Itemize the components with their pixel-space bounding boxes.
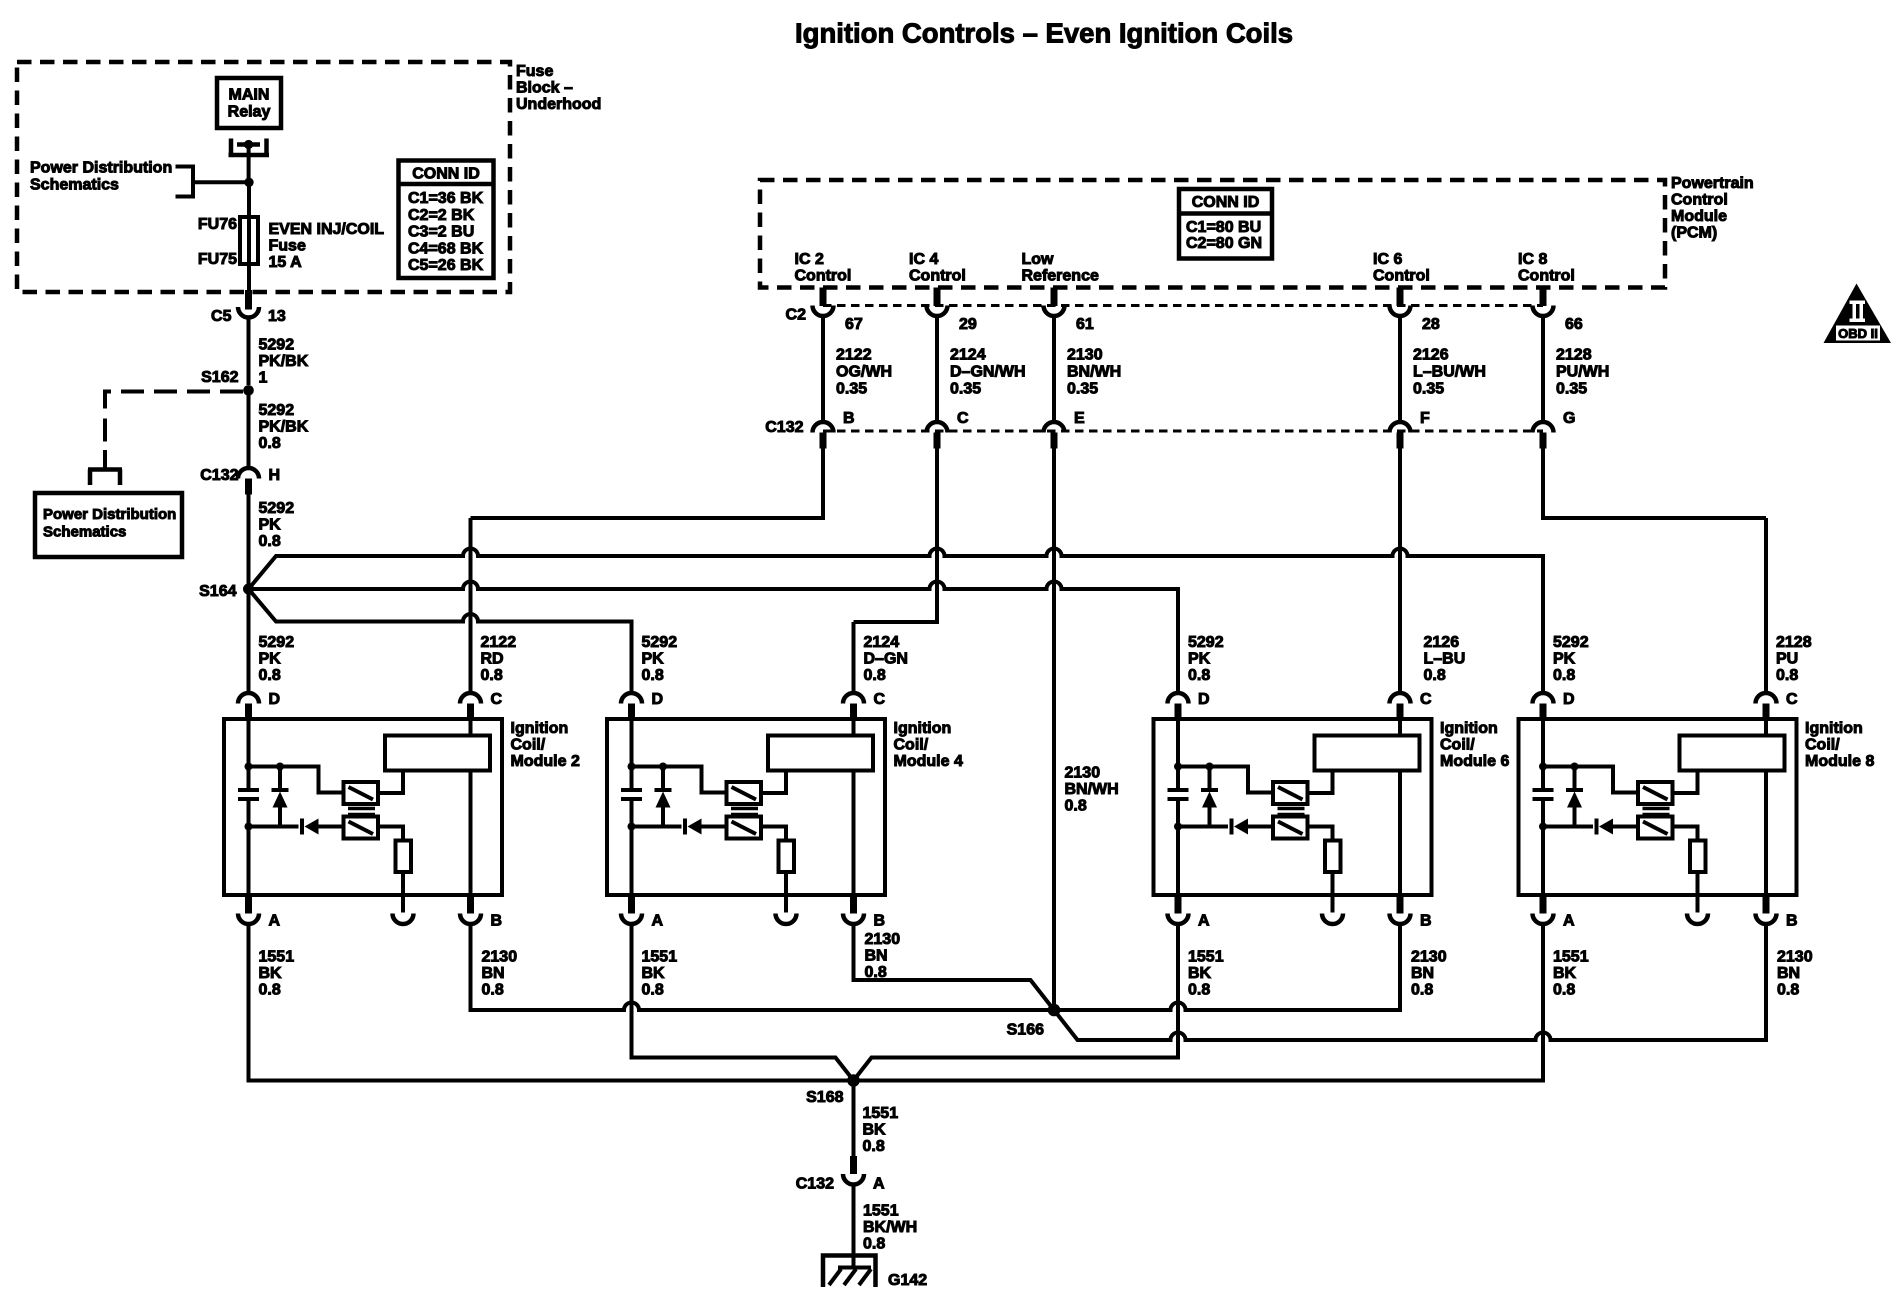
power distribution schematics label (top) bbox=[30, 160, 172, 194]
module 4 label bbox=[894, 720, 963, 770]
svg-text:Coil/: Coil/ bbox=[894, 737, 929, 754]
wire 1551 BK bus (module 2 A to module 8 A) bbox=[249, 926, 1544, 1081]
svg-text:C: C bbox=[1786, 691, 1798, 708]
svg-text:BK: BK bbox=[1188, 965, 1212, 982]
connector A module 4 bbox=[621, 895, 642, 924]
svg-text:13: 13 bbox=[268, 308, 286, 325]
coupler core bars bbox=[1643, 809, 1670, 815]
svg-text:5292: 5292 bbox=[259, 402, 295, 419]
diode bbox=[1597, 819, 1639, 835]
wire 2130 BN bus (module 2 B to module 6 B) bbox=[471, 926, 1401, 1010]
zener diode bbox=[655, 767, 672, 827]
wire label 2128 PU 0.8 bbox=[1776, 634, 1812, 684]
wire C internal bottom bbox=[852, 771, 856, 896]
capacitor bbox=[238, 790, 259, 799]
svg-text:Power Distribution: Power Distribution bbox=[43, 506, 176, 523]
svg-text:2130: 2130 bbox=[1065, 765, 1101, 782]
coupler core bars bbox=[731, 809, 758, 815]
PCM label bbox=[1671, 175, 1754, 242]
node (bottom junction) bbox=[1539, 823, 1547, 831]
wire C internal bottom bbox=[1764, 771, 1768, 896]
connector C132 E bbox=[1044, 422, 1065, 449]
svg-text:5292: 5292 bbox=[259, 337, 295, 354]
svg-text:C: C bbox=[874, 691, 886, 708]
svg-text:B: B bbox=[874, 913, 886, 930]
svg-text:0.8: 0.8 bbox=[1424, 667, 1446, 684]
wire 1551 BK 0.8 (S168 down) bbox=[852, 1081, 856, 1157]
wire label 5292 PK 0.8 bbox=[1553, 634, 1589, 684]
svg-text:EVEN INJ/COIL: EVEN INJ/COIL bbox=[269, 221, 385, 238]
svg-text:Module: Module bbox=[1671, 208, 1727, 225]
wire branch to power distribution bbox=[193, 180, 249, 184]
connector B module 4 bbox=[843, 895, 864, 924]
wire D internal bbox=[1541, 719, 1545, 895]
svg-text:G142: G142 bbox=[888, 1272, 927, 1289]
svg-text:0.8: 0.8 bbox=[1553, 667, 1575, 684]
svg-text:Fuse: Fuse bbox=[516, 63, 553, 80]
svg-text:S162: S162 bbox=[201, 369, 238, 386]
svg-text:B: B bbox=[491, 913, 503, 930]
powertrain control module dashed box bbox=[760, 180, 1665, 288]
wire label 5292 PK 0.8 bbox=[642, 634, 678, 684]
wire label 2126 L&#8211;BU/WH 0.35 bbox=[1413, 347, 1486, 398]
connector C module 4 bbox=[843, 693, 864, 720]
wire 2128 PU/WH 0.35 bbox=[1541, 318, 1545, 420]
node (zener top) bbox=[276, 763, 284, 771]
svg-text:S168: S168 bbox=[806, 1089, 843, 1106]
svg-text:IC 6: IC 6 bbox=[1373, 251, 1402, 268]
svg-text:C4=68 BK: C4=68 BK bbox=[408, 240, 484, 257]
svg-text:0.8: 0.8 bbox=[642, 667, 664, 684]
ignition coil/module 2 box bbox=[224, 719, 502, 895]
wire label 2130 BN/WH 0.8 bbox=[1065, 765, 1119, 815]
svg-text:0.35: 0.35 bbox=[950, 381, 981, 398]
wire label 2124 D&#8211;GN 0.8 bbox=[864, 634, 908, 684]
svg-text:0.8: 0.8 bbox=[481, 667, 503, 684]
ignition coil/module 4 bbox=[607, 691, 963, 930]
svg-text:PK/BK: PK/BK bbox=[259, 419, 309, 436]
connector C2 pin 61 bbox=[1044, 288, 1065, 317]
svg-text:CONN ID: CONN ID bbox=[1192, 194, 1260, 211]
wire label 1551 BK/WH 0.8 bbox=[863, 1203, 917, 1253]
coupler box (bottom) bbox=[1273, 817, 1308, 839]
svg-text:1: 1 bbox=[259, 370, 268, 387]
connector C2 pin 67 bbox=[813, 288, 834, 317]
connector D module 2 bbox=[238, 693, 259, 720]
svg-text:Power Distribution: Power Distribution bbox=[30, 160, 172, 177]
wire top row bbox=[249, 767, 344, 793]
connector B module 2 bbox=[460, 895, 481, 924]
svg-text:PK: PK bbox=[1553, 651, 1576, 668]
svg-text:1551: 1551 bbox=[259, 949, 295, 966]
svg-text:C5=26 BK: C5=26 BK bbox=[408, 257, 484, 274]
coupler box (top) bbox=[1273, 782, 1308, 804]
junction dot bbox=[244, 178, 253, 187]
svg-text:BN/WH: BN/WH bbox=[1065, 781, 1119, 798]
resistor bbox=[1690, 841, 1706, 873]
wire label 2122 RD 0.8 bbox=[481, 634, 517, 684]
svg-text:BN: BN bbox=[865, 948, 888, 965]
wire top row bbox=[1178, 767, 1273, 793]
connector row C2 dashed line bbox=[823, 304, 1543, 307]
wire label 2130 BN 0.8 (module 4 B) bbox=[865, 931, 901, 981]
wire 5292 PK/BK 0.8 bbox=[247, 390, 251, 466]
svg-text:Module 8: Module 8 bbox=[1805, 753, 1874, 770]
MAIN relay box bbox=[217, 78, 281, 128]
wire label 2130 BN 0.8 (module 8 B) bbox=[1777, 949, 1813, 999]
svg-text:C: C bbox=[491, 691, 503, 708]
svg-text:0.35: 0.35 bbox=[1556, 381, 1587, 398]
svg-text:A: A bbox=[269, 913, 281, 930]
node (bottom junction) bbox=[1174, 823, 1182, 831]
wire label 2128 PU/WH 0.35 bbox=[1556, 347, 1609, 398]
wire coupler to coil box bbox=[1308, 771, 1333, 794]
svg-text:0.8: 0.8 bbox=[259, 435, 281, 452]
pin label IC 6 Control bbox=[1373, 251, 1430, 285]
svg-text:OG/WH: OG/WH bbox=[836, 364, 892, 381]
svg-text:Control: Control bbox=[1671, 192, 1728, 209]
svg-text:CONN ID: CONN ID bbox=[412, 166, 480, 183]
wire label 2130 BN 0.8 (module 2 B) bbox=[482, 949, 518, 999]
svg-text:BK/WH: BK/WH bbox=[863, 1219, 917, 1236]
svg-text:Control: Control bbox=[1518, 268, 1575, 285]
connector A module 6 bbox=[1168, 895, 1189, 924]
svg-text:Schematics: Schematics bbox=[43, 524, 126, 541]
svg-text:B: B bbox=[1786, 913, 1798, 930]
svg-text:5292: 5292 bbox=[642, 634, 678, 651]
node (top junction) bbox=[1174, 763, 1182, 771]
svg-text:B: B bbox=[1420, 913, 1432, 930]
CONN ID table (fuse block) bbox=[399, 161, 494, 279]
ignition coil/module 4 box bbox=[607, 719, 885, 895]
wire bottom row bbox=[1178, 825, 1228, 829]
svg-text:61: 61 bbox=[1076, 316, 1094, 333]
wire label 2130 BN 0.8 (module 6 B) bbox=[1411, 949, 1447, 999]
splice S168 bbox=[847, 1074, 860, 1087]
svg-text:C: C bbox=[957, 410, 969, 427]
node (zener top) bbox=[1206, 763, 1214, 771]
module 6 label bbox=[1440, 720, 1509, 770]
ignition coil/module 6 box bbox=[1154, 719, 1432, 895]
svg-text:Schematics: Schematics bbox=[30, 177, 119, 194]
svg-text:Ignition: Ignition bbox=[511, 720, 569, 737]
wire D internal bbox=[247, 719, 251, 895]
pin label Low Reference bbox=[1022, 251, 1099, 285]
wire label 2124 D&#8211;GN/WH 0.35 bbox=[950, 347, 1026, 398]
svg-text:C132: C132 bbox=[796, 1176, 834, 1193]
wire resistor to connector bbox=[1696, 872, 1700, 913]
svg-text:Ignition: Ignition bbox=[1805, 720, 1863, 737]
svg-text:0.8: 0.8 bbox=[1553, 982, 1575, 999]
wire top row bbox=[632, 767, 727, 793]
connector C132 H bbox=[238, 468, 259, 494]
svg-text:67: 67 bbox=[845, 316, 863, 333]
wire 2130 BN/WH E to S166 bbox=[1052, 449, 1056, 1011]
wire 2128 vertical to module 8 C bbox=[1764, 518, 1768, 691]
ignition coil/module 6 bbox=[1154, 691, 1510, 930]
node (top junction) bbox=[628, 763, 636, 771]
wire 2124 D&#8211;GN/WH 0.35 bbox=[935, 318, 939, 420]
wire 2124 vertical to module 4 C bbox=[852, 622, 856, 691]
wire relay to junction bbox=[247, 145, 251, 183]
svg-text:Underhood: Underhood bbox=[516, 96, 601, 113]
wire module 4 B to S166 bbox=[854, 926, 1055, 1010]
svg-text:F: F bbox=[1420, 410, 1430, 427]
svg-text:PK: PK bbox=[1188, 651, 1211, 668]
svg-text:1551: 1551 bbox=[863, 1105, 899, 1122]
node (zener top) bbox=[659, 763, 667, 771]
OBD II symbol bbox=[1824, 284, 1892, 344]
connector A module 2 bbox=[238, 895, 259, 924]
ignition coil/module 8 box bbox=[1519, 719, 1797, 895]
wire label 5292 PK 0.8 bbox=[1188, 634, 1224, 684]
wire stub to fork bbox=[103, 450, 107, 468]
wire 5292 PK to module 6 D bbox=[249, 582, 1179, 691]
wire bottom row bbox=[1543, 825, 1593, 829]
svg-text:0.8: 0.8 bbox=[1411, 982, 1433, 999]
power distribution schematics box bbox=[35, 493, 182, 557]
connector (unlabeled) bbox=[1322, 914, 1343, 925]
diode bbox=[1232, 819, 1274, 835]
wire C internal bottom bbox=[1398, 771, 1402, 896]
ground G142 bbox=[823, 1256, 876, 1288]
svg-text:PK/BK: PK/BK bbox=[259, 353, 309, 370]
svg-text:PK: PK bbox=[259, 517, 282, 534]
wire label 2126 L&#8211;BU 0.8 bbox=[1424, 634, 1466, 684]
svg-text:0.8: 0.8 bbox=[1776, 667, 1798, 684]
svg-text:2130: 2130 bbox=[1777, 949, 1813, 966]
wire top row bbox=[1543, 767, 1638, 793]
wire coupler to coil box bbox=[1673, 771, 1698, 794]
svg-text:0.35: 0.35 bbox=[1413, 381, 1444, 398]
svg-text:BK: BK bbox=[259, 965, 283, 982]
svg-text:2126: 2126 bbox=[1424, 634, 1460, 651]
wire 2122 OG/WH 0.35 bbox=[821, 318, 825, 420]
svg-text:C132: C132 bbox=[765, 419, 803, 436]
ignition coil box bbox=[1315, 736, 1420, 771]
wire 2128 jog to module 8 C bbox=[1543, 449, 1766, 519]
svg-text:2130: 2130 bbox=[1411, 949, 1447, 966]
connector C132 C bbox=[927, 422, 948, 449]
wire 1551 BK bus (module 4 A to module 6 A) bbox=[632, 926, 1179, 1081]
fuse block label bbox=[516, 63, 601, 113]
node (bottom junction) bbox=[628, 823, 636, 831]
svg-text:Module 6: Module 6 bbox=[1440, 753, 1509, 770]
svg-text:0.8: 0.8 bbox=[1065, 798, 1087, 815]
wire 2126 F to module 6 C bbox=[1398, 449, 1402, 692]
capacitor bbox=[1168, 790, 1189, 799]
splice S164 bbox=[243, 584, 254, 595]
svg-text:A: A bbox=[652, 913, 664, 930]
ignition coil/module 8 bbox=[1519, 691, 1875, 930]
svg-text:S166: S166 bbox=[1007, 1022, 1044, 1039]
svg-text:MAIN: MAIN bbox=[229, 87, 270, 104]
svg-text:S164: S164 bbox=[199, 583, 236, 600]
wire C internal top bbox=[1398, 716, 1402, 736]
svg-text:PK: PK bbox=[642, 651, 665, 668]
svg-text:C1=36 BK: C1=36 BK bbox=[408, 190, 484, 207]
connector B module 8 bbox=[1756, 895, 1777, 924]
svg-text:C3=2 BU: C3=2 BU bbox=[408, 224, 474, 241]
svg-text:5292: 5292 bbox=[259, 500, 295, 517]
svg-text:0.35: 0.35 bbox=[1067, 381, 1098, 398]
pin label IC 8 Control bbox=[1518, 251, 1575, 285]
connector (unlabeled) bbox=[776, 914, 797, 925]
svg-text:0.8: 0.8 bbox=[863, 1138, 885, 1155]
svg-text:Control: Control bbox=[909, 268, 966, 285]
node (top junction) bbox=[1539, 763, 1547, 771]
CONN ID table (PCM) bbox=[1179, 189, 1272, 259]
wire 2122 vertical to module 2 C bbox=[469, 518, 473, 691]
connector C132 A bbox=[843, 1156, 864, 1185]
module 2 label bbox=[511, 720, 580, 770]
resistor bbox=[1325, 841, 1341, 873]
svg-text:BN/WH: BN/WH bbox=[1067, 364, 1121, 381]
off-page fork symbol bbox=[88, 470, 122, 486]
wire C internal top bbox=[469, 716, 473, 736]
wire coupler to resistor bbox=[761, 827, 786, 841]
svg-text:2124: 2124 bbox=[950, 347, 986, 364]
module 8 label bbox=[1805, 720, 1874, 770]
svg-text:RD: RD bbox=[481, 651, 504, 668]
svg-text:Block –: Block – bbox=[516, 80, 573, 97]
zener diode bbox=[272, 767, 289, 827]
connector C module 6 bbox=[1390, 693, 1411, 720]
connector row C132 dashed line bbox=[823, 430, 1543, 433]
capacitor bbox=[1533, 790, 1554, 799]
svg-text:Fuse: Fuse bbox=[269, 238, 306, 255]
pin label IC 2 Control bbox=[795, 251, 852, 285]
svg-text:2122: 2122 bbox=[481, 634, 517, 651]
wire C internal bottom bbox=[469, 771, 473, 896]
svg-text:0.8: 0.8 bbox=[642, 982, 664, 999]
svg-text:Coil/: Coil/ bbox=[511, 737, 546, 754]
connector C module 2 bbox=[460, 693, 481, 720]
svg-text:FU76: FU76 bbox=[198, 216, 237, 233]
svg-text:BN: BN bbox=[482, 965, 505, 982]
svg-text:1551: 1551 bbox=[642, 949, 678, 966]
svg-text:0.8: 0.8 bbox=[259, 533, 281, 550]
svg-text:0.8: 0.8 bbox=[1188, 982, 1210, 999]
connector C module 8 bbox=[1756, 693, 1777, 720]
svg-text:BK: BK bbox=[1553, 965, 1577, 982]
coupler box (bottom) bbox=[344, 817, 379, 839]
wire resistor to connector bbox=[784, 872, 788, 913]
connector C132 G bbox=[1533, 422, 1554, 449]
svg-text:28: 28 bbox=[1422, 316, 1440, 333]
wire label 5292 PK/BK 1 bbox=[259, 337, 309, 387]
svg-text:Control: Control bbox=[795, 268, 852, 285]
connector D module 4 bbox=[621, 693, 642, 720]
svg-text:5292: 5292 bbox=[259, 634, 295, 651]
svg-text:2124: 2124 bbox=[864, 634, 900, 651]
node (bottom junction) bbox=[245, 823, 253, 831]
connector (unlabeled) bbox=[393, 914, 414, 925]
svg-text:5292: 5292 bbox=[1188, 634, 1224, 651]
pin label IC 4 Control bbox=[909, 251, 966, 285]
svg-text:IC 2: IC 2 bbox=[795, 251, 824, 268]
coupler box (top) bbox=[727, 782, 762, 804]
wire 5292 PK to module 8 D bbox=[249, 549, 1544, 691]
svg-text:B: B bbox=[843, 410, 855, 427]
resistor bbox=[779, 841, 795, 873]
coupler box (bottom) bbox=[727, 817, 762, 839]
wire label 1551 BK 0.8 (module 2 A) bbox=[259, 949, 295, 999]
svg-text:1551: 1551 bbox=[1553, 949, 1589, 966]
svg-text:IC 4: IC 4 bbox=[909, 251, 938, 268]
svg-text:PU/WH: PU/WH bbox=[1556, 364, 1609, 381]
svg-text:0.8: 0.8 bbox=[864, 667, 886, 684]
wire label 5292 PK 0.8 bbox=[259, 500, 295, 550]
diode bbox=[685, 819, 727, 835]
svg-text:0.8: 0.8 bbox=[1777, 982, 1799, 999]
svg-text:0.8: 0.8 bbox=[259, 667, 281, 684]
svg-text:OBD II: OBD II bbox=[1838, 326, 1878, 341]
svg-text:C5: C5 bbox=[211, 308, 232, 325]
wire 2130 BN/WH 0.35 bbox=[1052, 318, 1056, 420]
svg-text:D: D bbox=[1198, 691, 1210, 708]
connector D module 6 bbox=[1168, 693, 1189, 720]
coupler box (bottom) bbox=[1638, 817, 1673, 839]
svg-text:0.8: 0.8 bbox=[259, 982, 281, 999]
fuse block - underhood dashed box bbox=[17, 62, 510, 292]
wire label 5292 PK 0.8 bbox=[259, 634, 295, 684]
wire 2124 jog to module 4 C bbox=[854, 449, 938, 623]
capacitor bbox=[621, 790, 642, 799]
ignition coil box bbox=[1680, 736, 1785, 771]
svg-text:C2: C2 bbox=[786, 307, 807, 324]
svg-text:D–GN: D–GN bbox=[864, 651, 908, 668]
svg-text:BK: BK bbox=[642, 965, 666, 982]
wire coupler to resistor bbox=[1308, 827, 1333, 841]
svg-text:0.35: 0.35 bbox=[836, 381, 867, 398]
wire label 1551 BK 0.8 (module 6 A) bbox=[1188, 949, 1224, 999]
svg-text:L–BU: L–BU bbox=[1424, 651, 1466, 668]
wire C internal top bbox=[1764, 716, 1768, 736]
coupler core bars bbox=[348, 809, 375, 815]
svg-text:1551: 1551 bbox=[863, 1203, 899, 1220]
svg-text:H: H bbox=[269, 467, 281, 484]
wire junction to fuse bbox=[247, 182, 251, 217]
svg-text:C: C bbox=[1420, 691, 1432, 708]
svg-text:5292: 5292 bbox=[1553, 634, 1589, 651]
svg-text:C1=80 BU: C1=80 BU bbox=[1186, 219, 1261, 236]
svg-text:E: E bbox=[1074, 410, 1085, 427]
wire 5292 PK/BK 1 bbox=[247, 320, 251, 386]
svg-text:Ignition Controls – Even Ignit: Ignition Controls – Even Ignition Coils bbox=[795, 18, 1293, 49]
svg-text:Ignition: Ignition bbox=[894, 720, 952, 737]
svg-text:Coil/: Coil/ bbox=[1805, 737, 1840, 754]
wire 2130 BN bus (S166 to module 8 B) bbox=[1054, 926, 1766, 1040]
node (zener top) bbox=[1571, 763, 1579, 771]
svg-text:D: D bbox=[1563, 691, 1575, 708]
node (top junction) bbox=[245, 763, 253, 771]
wire coupler to coil box bbox=[378, 771, 403, 794]
connector C2 pin 28 bbox=[1390, 288, 1411, 317]
svg-text:2128: 2128 bbox=[1556, 347, 1592, 364]
dashed branch from S162 bbox=[105, 392, 243, 453]
svg-text:Control: Control bbox=[1373, 268, 1430, 285]
wire coupler to coil box bbox=[761, 771, 786, 794]
fuse FU75/FU76 15A bbox=[240, 217, 258, 264]
splice S166 bbox=[1048, 1004, 1061, 1017]
svg-text:D: D bbox=[652, 691, 664, 708]
wire label 2122 OG/WH 0.35 bbox=[836, 347, 892, 398]
zener diode bbox=[1201, 767, 1218, 827]
svg-text:BN: BN bbox=[1411, 965, 1434, 982]
connector C2 pin 29 bbox=[927, 288, 948, 317]
svg-text:29: 29 bbox=[959, 316, 977, 333]
